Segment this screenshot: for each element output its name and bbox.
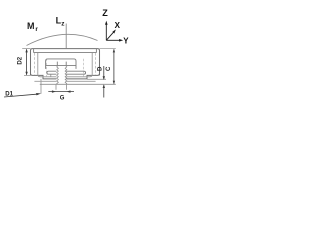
- Z axis: [105, 24, 107, 41]
- dimension C: [113, 49, 115, 85]
- svg-text:C: C: [106, 66, 112, 71]
- boss left edge / D1 extension: [40, 79, 42, 94]
- Y axis: [106, 39, 120, 41]
- lid end connector right: [95, 49, 97, 53]
- mid bottom line: [34, 80, 95, 82]
- bottom line / extension: [40, 83, 116, 85]
- svg-text:M: M: [27, 21, 35, 31]
- cap bottom left: [31, 73, 57, 79]
- lid end connector left: [33, 49, 35, 53]
- hidden edge left (dashed): [45, 59, 47, 77]
- dimension G: [48, 90, 74, 92]
- inner box: [38, 53, 92, 77]
- X axis: [106, 32, 113, 40]
- block left tick: [56, 62, 58, 66]
- D extension line: [87, 78, 106, 80]
- svg-text:Y: Y: [123, 36, 129, 45]
- left step vertical: [50, 74, 52, 77]
- hidden edge right (dashed): [83, 59, 85, 77]
- svg-text:z: z: [61, 21, 65, 28]
- lower slot right: [66, 71, 85, 74]
- leader Lz: [65, 24, 67, 49]
- moment arc Mr: [27, 34, 98, 45]
- cavity bar inner line: [46, 64, 76, 66]
- dimension D1: [4, 93, 41, 97]
- bottom edge extension left: [24, 74, 31, 76]
- svg-text:Z: Z: [102, 8, 108, 18]
- dimension D: [103, 66, 105, 98]
- coordinate triad: [105, 21, 123, 42]
- lid line: [34, 52, 97, 54]
- svg-text:X: X: [115, 21, 121, 30]
- G extension right: [65, 85, 67, 90]
- svg-text:D1: D1: [5, 91, 13, 97]
- dimension D2: [25, 49, 27, 76]
- top edge extension left: [22, 48, 30, 50]
- svg-text:r: r: [35, 26, 38, 33]
- top edge extension right: [100, 48, 116, 50]
- inner wall right (dashed): [95, 53, 97, 75]
- G extension left: [55, 85, 57, 90]
- cap outline: [31, 49, 100, 76]
- lower slot left: [47, 71, 57, 74]
- thread wall left: [57, 65, 59, 84]
- thread wall right: [65, 65, 67, 84]
- svg-text:G: G: [60, 95, 65, 101]
- inner wall left (dashed): [33, 53, 35, 75]
- svg-text:D: D: [98, 66, 104, 71]
- block right tick: [65, 62, 67, 66]
- cap bottom right: [66, 73, 99, 79]
- svg-text:D2: D2: [17, 56, 23, 64]
- cavity top bar: [46, 59, 76, 69]
